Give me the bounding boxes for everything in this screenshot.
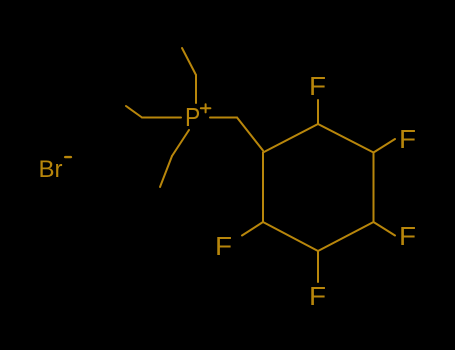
wire ring edge C6-C1 <box>262 153 264 223</box>
wire ring edge C2-C3 <box>318 124 374 153</box>
node F bottom <box>309 283 326 312</box>
wire ethyl-2 terminal CH3 <box>126 106 142 118</box>
node F top <box>309 73 326 102</box>
wire P-CH2 left bond <box>142 117 181 119</box>
wire P-CH2 up bond <box>195 75 197 103</box>
wire C6-F bottomleft bond <box>242 222 263 236</box>
wire ethyl-1 terminal CH3 <box>182 48 196 75</box>
node F bottomleft <box>215 233 232 262</box>
node F topright <box>399 126 416 155</box>
node P+ phosphonium <box>185 102 200 133</box>
wire C4-F bottomright bond <box>374 222 396 236</box>
wire ring edge C4-C5 <box>318 222 374 251</box>
wire CH2-C1 bond <box>237 118 263 151</box>
wire ring edge C1-C2 <box>263 124 318 153</box>
wire ring edge C3-C4 <box>373 153 375 223</box>
node P plus charge <box>201 104 211 112</box>
wire C3-F topright bond <box>374 139 396 153</box>
node Br- counterion <box>39 156 63 184</box>
wire ethyl-3 terminal CH3 <box>160 156 172 187</box>
wire P-CH2 down bond <box>172 130 189 156</box>
wire P-CH2 benzyl bond <box>210 117 237 119</box>
wire ring edge C5-C6 <box>263 222 318 251</box>
node F bottomright <box>399 223 416 252</box>
node Br minus charge <box>65 156 71 158</box>
wire C5-F bottom bond <box>317 251 319 282</box>
wire C2-F top bond <box>317 100 319 124</box>
